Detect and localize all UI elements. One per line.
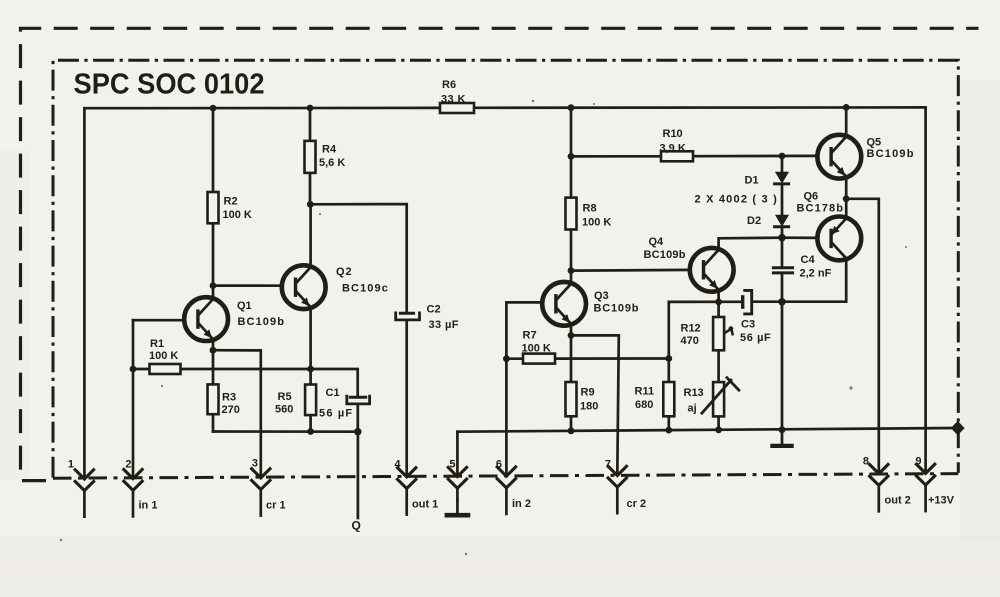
- svg-text:560: 560: [275, 404, 293, 416]
- wire R12 R13 column: [717, 302, 720, 430]
- diode D2: [747, 215, 789, 227]
- svg-text:56 µF: 56 µF: [319, 408, 353, 420]
- ground under pin 5: [447, 501, 468, 515]
- svg-text:R3: R3: [222, 392, 236, 404]
- svg-text:R10: R10: [663, 128, 683, 140]
- label Q5: [867, 137, 915, 161]
- svg-text:56 µF: 56 µF: [740, 332, 771, 344]
- junction dot Q3 emitter node: [568, 332, 575, 339]
- svg-text:R11: R11: [635, 386, 655, 398]
- wire Q4 collector to diode column: [719, 238, 782, 249]
- junction dot R10 left: [568, 153, 575, 160]
- svg-text:BC109b: BC109b: [594, 303, 640, 315]
- svg-text:R2: R2: [224, 196, 238, 208]
- wire Q2 collector: [309, 204, 312, 266]
- svg-text:+13V: +13V: [928, 495, 955, 507]
- wire R4 column: [309, 108, 312, 204]
- outer dashed border: [21, 28, 979, 480]
- capacitor C3: [740, 290, 771, 344]
- svg-text:Q: Q: [352, 519, 361, 533]
- resistor R10: [660, 128, 694, 161]
- svg-text:3,9 K: 3,9 K: [660, 143, 686, 155]
- svg-text:6: 6: [496, 458, 502, 470]
- svg-text:100 K: 100 K: [522, 343, 551, 355]
- capacitor C1: [319, 387, 370, 420]
- svg-text:100 K: 100 K: [582, 217, 611, 229]
- wire cr1 branch to pin 3: [213, 350, 261, 477]
- resistor R9: [566, 382, 599, 416]
- svg-text:aj: aj: [688, 403, 697, 415]
- capacitor C2: [396, 304, 459, 332]
- junction dot R2 top: [210, 105, 217, 112]
- svg-text:R5: R5: [278, 391, 292, 403]
- transistor Q3 BC109b: [542, 282, 586, 326]
- svg-text:100 K: 100 K: [223, 209, 252, 221]
- svg-text:7: 7: [605, 458, 611, 470]
- svg-text:Q2: Q2: [336, 266, 353, 278]
- junction dot Q1 emitter node: [210, 347, 217, 354]
- junction dot Q1 collector node: [210, 282, 217, 289]
- wire diode capacitor column: [781, 156, 784, 430]
- svg-text:1: 1: [68, 458, 74, 470]
- wire Q3 collector node to Q4 base: [571, 269, 690, 272]
- capacitor C4: [773, 254, 831, 280]
- wire Q6 base: [782, 236, 818, 239]
- svg-text:cr 2: cr 2: [627, 498, 647, 510]
- junction dot R5 bottom: [307, 428, 314, 435]
- junction dot R5 top / Q2 emitter: [307, 366, 314, 373]
- svg-text:C2: C2: [427, 304, 441, 316]
- resistor R7: [522, 330, 556, 364]
- transistor Q5 BC109b: [817, 135, 861, 179]
- svg-text:out 2: out 2: [885, 495, 911, 507]
- svg-text:out 1: out 1: [412, 499, 438, 511]
- resistor R3: [208, 384, 240, 416]
- resistor R2: [208, 192, 252, 223]
- junction dot R4 top: [307, 105, 314, 112]
- junction dot R7 left: [503, 355, 510, 362]
- adjust arrow on R13: [702, 378, 739, 414]
- svg-text:270: 270: [222, 404, 240, 416]
- svg-text:R6: R6: [442, 79, 456, 91]
- wire R10 row to Q5 base: [571, 155, 818, 158]
- transistor Q2 BC109c: [282, 265, 326, 309]
- junction dot Q4 emitter node: [715, 299, 722, 306]
- wire R11 column: [667, 302, 670, 430]
- svg-text:R1: R1: [150, 338, 164, 350]
- connector pin 8: [863, 456, 911, 513]
- wire R1 node row to C1: [133, 369, 358, 396]
- wire Q5 collector: [845, 107, 848, 136]
- svg-text:D1: D1: [745, 175, 759, 187]
- svg-text:Q6: Q6: [804, 191, 819, 203]
- wire Q5 emitter to Q6 emitter: [845, 177, 848, 217]
- junction dot R11 bottom: [665, 427, 672, 434]
- svg-text:Q4: Q4: [649, 236, 665, 248]
- label Q4: [644, 236, 686, 261]
- junction dot R1 left: [130, 366, 137, 373]
- resistor R6: [440, 79, 474, 113]
- transistor Q6 BC178b: [817, 217, 861, 261]
- junction dot R8 top: [568, 104, 575, 111]
- label Q3: [594, 290, 640, 315]
- wire C1 bottom to Q terminal: [356, 406, 359, 518]
- svg-text:D2: D2: [747, 215, 761, 227]
- junction dot R13 bottom: [715, 426, 722, 433]
- label Q6: [797, 191, 845, 215]
- svg-text:4: 4: [394, 458, 401, 470]
- ground at emitter rail: [772, 430, 791, 446]
- connector pin 5: [447, 458, 468, 501]
- junction dot Q5 collector at rail: [843, 104, 850, 111]
- svg-text:8: 8: [863, 456, 869, 468]
- wire R8 column top: [570, 108, 573, 198]
- junction dot diode column / Q6 base: [778, 234, 786, 242]
- svg-text:cr 1: cr 1: [266, 500, 286, 512]
- node terminal diamond: [951, 421, 965, 435]
- svg-text:BC109c: BC109c: [342, 283, 389, 295]
- label Q2: [336, 266, 389, 295]
- junction dot ground branch: [779, 426, 786, 433]
- diode D1: [745, 172, 789, 186]
- junction dot Q5 emitter node: [843, 195, 850, 202]
- transistor Q1 BC109b: [184, 297, 228, 341]
- wire R2 column: [212, 108, 215, 298]
- wire Q3 emitter column through R9: [570, 325, 573, 431]
- svg-text:2: 2: [125, 458, 131, 470]
- junction dot C1 bottom: [354, 428, 362, 436]
- svg-text:SPC SOC 0102: SPC SOC 0102: [74, 69, 265, 101]
- connector pin 2: [123, 458, 158, 517]
- resistor R5: [275, 385, 316, 416]
- svg-text:Q5: Q5: [867, 137, 882, 149]
- svg-text:R12: R12: [681, 323, 701, 335]
- svg-text:C3: C3: [741, 319, 755, 331]
- connector pin 9: [915, 456, 954, 513]
- wire ground rail: [457, 428, 953, 432]
- svg-text:9: 9: [915, 456, 921, 468]
- svg-text:680: 680: [635, 399, 653, 411]
- svg-text:in 2: in 2: [512, 498, 531, 510]
- wire emitter row to Q6 collector: [669, 260, 846, 302]
- svg-text:Q3: Q3: [594, 290, 609, 302]
- wire cr2 branch to pin 7: [571, 335, 619, 475]
- svg-text:R13: R13: [684, 387, 704, 399]
- label Q1: [237, 300, 285, 328]
- wire Q3 base to pin 6 column: [506, 302, 543, 475]
- tap mark on R12: [725, 326, 734, 334]
- svg-text:3: 3: [252, 458, 258, 470]
- junction dot C4 bottom: [778, 298, 786, 306]
- junction dot R9 bottom: [568, 427, 575, 434]
- resistor R1: [149, 338, 181, 374]
- svg-text:Q1: Q1: [237, 300, 252, 312]
- junction dot R7 right / R11 top: [665, 355, 672, 362]
- resistor R11: [635, 382, 675, 416]
- wire Q4 emitter: [717, 291, 720, 302]
- svg-text:R9: R9: [581, 387, 595, 399]
- svg-text:5,6 K: 5,6 K: [319, 157, 345, 169]
- svg-text:R8: R8: [583, 203, 597, 215]
- svg-text:BC109b: BC109b: [644, 249, 686, 261]
- wire left rail to pin 1: [83, 108, 86, 478]
- resistor R13: [684, 382, 725, 416]
- wire Q2 emitter column: [309, 308, 312, 431]
- connector pin 1: [68, 458, 95, 518]
- svg-text:R7: R7: [523, 330, 537, 342]
- svg-text:BC109b: BC109b: [238, 316, 286, 328]
- connector pin 4: [394, 458, 438, 516]
- connector pin 7: [605, 458, 646, 514]
- svg-text:BC178b: BC178b: [797, 203, 845, 215]
- svg-text:33 µF: 33 µF: [429, 319, 459, 331]
- wire top supply rail: [85, 106, 926, 109]
- junction dot R4 bottom / Q2 collector: [307, 201, 314, 208]
- wire pin 5 stub: [456, 432, 459, 476]
- svg-text:C4: C4: [801, 254, 816, 266]
- svg-text:470: 470: [681, 335, 699, 347]
- wire bottom node R3-R5-C1: [213, 430, 358, 433]
- wire R8 bottom to Q3 collector: [570, 230, 573, 283]
- svg-text:in 1: in 1: [139, 500, 158, 512]
- module boundary dash-dot frame: [53, 60, 958, 478]
- wire out2 branch to pin 8: [846, 199, 879, 473]
- connector pin 3: [251, 458, 286, 517]
- junction dot Q3 collector node: [568, 267, 575, 274]
- wire pin 2 column: [132, 320, 135, 478]
- resistor R4: [305, 141, 346, 173]
- svg-text:2,2 nF: 2,2 nF: [800, 268, 832, 280]
- connector pin 6: [496, 458, 531, 515]
- svg-text:33 K: 33 K: [441, 94, 466, 106]
- junction dot diode column top: [779, 153, 786, 160]
- wire out1 row to C2 and pin 4: [310, 204, 406, 476]
- transistor Q4 BC109b: [690, 248, 734, 292]
- resistor R8: [566, 198, 612, 230]
- svg-text:100 K: 100 K: [149, 350, 178, 362]
- wire Q1 emitter column through R3: [212, 340, 215, 431]
- wire R7 row: [506, 357, 668, 360]
- wire +13V column to pin 9: [924, 107, 927, 472]
- wire Q1 base from pin 2 column: [133, 319, 185, 322]
- svg-text:BC109b: BC109b: [867, 148, 915, 160]
- svg-text:2 X 4002 ( 3 ): 2 X 4002 ( 3 ): [695, 194, 778, 206]
- svg-text:5: 5: [449, 458, 455, 470]
- resistor R12: [681, 317, 725, 350]
- svg-text:180: 180: [580, 401, 598, 413]
- svg-text:R4: R4: [322, 144, 337, 156]
- svg-text:C1: C1: [326, 387, 340, 399]
- wire Q1 collector node to Q2 base: [213, 284, 283, 287]
